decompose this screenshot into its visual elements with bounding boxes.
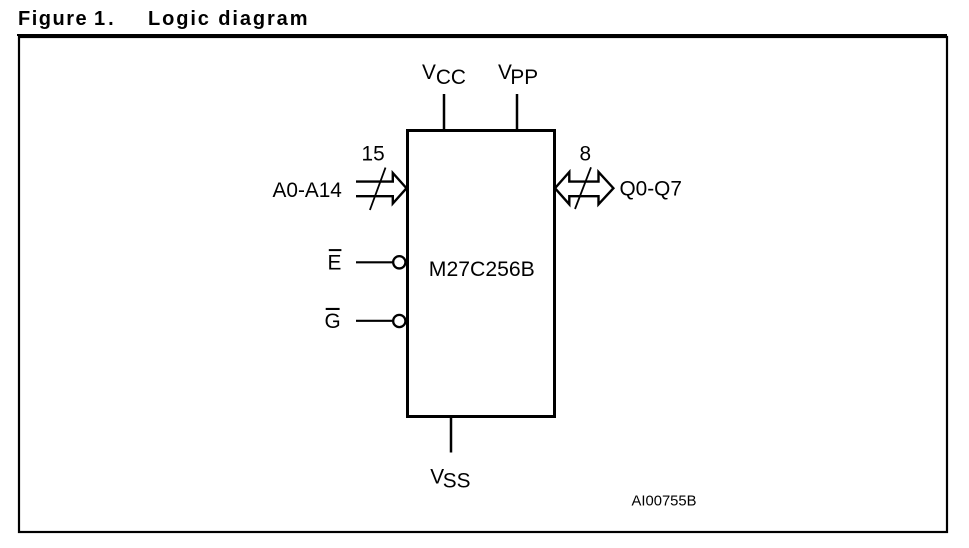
pin VSS wire xyxy=(450,416,453,453)
pin VCC wire xyxy=(443,94,446,130)
data bus slash xyxy=(575,167,591,209)
svg-text:Logic diagram: Logic diagram xyxy=(148,8,309,30)
figure title xyxy=(18,8,309,30)
svg-text:1.: 1. xyxy=(94,8,117,30)
wire E input xyxy=(356,261,392,263)
svg-text:Figure: Figure xyxy=(18,8,88,30)
svg-text:Q0-Q7: Q0-Q7 xyxy=(620,177,682,200)
svg-text:AI00755B: AI00755B xyxy=(632,493,697,509)
title underline xyxy=(17,34,947,36)
IC body M27C256B xyxy=(408,131,555,417)
inversion bubble G xyxy=(393,315,405,327)
svg-text:8: 8 xyxy=(580,142,592,165)
svg-text:VPP: VPP xyxy=(498,61,538,89)
svg-text:M27C256B: M27C256B xyxy=(429,258,535,281)
pin VPP wire xyxy=(516,94,519,130)
svg-text:VSS: VSS xyxy=(430,465,470,492)
label E with overline xyxy=(328,249,342,274)
data bus double arrow Q0-Q7 xyxy=(555,172,613,204)
address bus slash xyxy=(370,168,386,210)
svg-text:G: G xyxy=(325,310,341,333)
svg-text:VCC: VCC xyxy=(422,61,466,89)
wire G input xyxy=(356,320,392,322)
svg-text:15: 15 xyxy=(362,142,385,165)
svg-text:E: E xyxy=(328,251,342,274)
address bus arrow into IC xyxy=(356,173,407,204)
inversion bubble E xyxy=(393,256,405,268)
label G with overline xyxy=(325,308,341,333)
svg-text:A0-A14: A0-A14 xyxy=(273,179,342,202)
